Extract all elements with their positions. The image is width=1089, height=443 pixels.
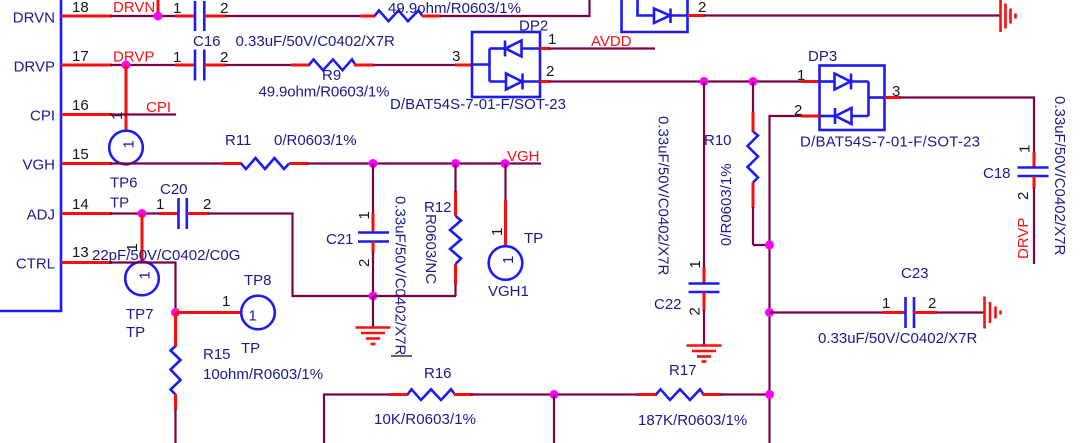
wire DRVP row left (110, 64, 176, 66)
capacitor C16 pin1 stub (175, 64, 195, 67)
capacitor C20 plates (177, 198, 180, 229)
svg-text:CTRL: CTRL (16, 256, 55, 273)
svg-text:1: 1 (489, 228, 506, 236)
svg-text:C23: C23 (901, 265, 929, 282)
diode DP3 inner vertical (867, 82, 870, 117)
svg-text:DRVP: DRVP (113, 49, 154, 66)
resistor R10 top stub (752, 112, 755, 132)
node junction ADJ (138, 209, 147, 218)
resistor R12 column bottom wire (454, 284, 456, 296)
wire TP7 drop (141, 214, 144, 262)
svg-text:1: 1 (249, 308, 257, 325)
wire ADJ row right with corner down (208, 214, 373, 297)
svg-text:1: 1 (121, 140, 138, 148)
resistor R10 bottom wire (752, 207, 754, 245)
diode DP3 top inner wire (820, 80, 835, 83)
testpoint VGH1 drop wire (504, 164, 506, 202)
svg-text:3: 3 (892, 83, 900, 100)
wire DRVN row mid (225, 15, 361, 17)
node junction C22 top (700, 77, 709, 86)
wire stub from top into node (157, 0, 160, 16)
resistor R16 left stub (389, 393, 409, 396)
svg-text:1: 1 (173, 0, 181, 17)
svg-text:2: 2 (203, 196, 211, 213)
wire junction down (553, 395, 555, 443)
diode DP2 bottom inner wire (490, 80, 507, 83)
wire DP1 to ground (704, 14, 1000, 16)
svg-text:VGH: VGH (22, 157, 55, 174)
wire VGH row right (307, 162, 541, 164)
diode DP3 pin1 stub (801, 80, 820, 83)
svg-text:10ohm/R0603/1%: 10ohm/R0603/1% (203, 366, 323, 383)
node junction R17 right (765, 390, 774, 399)
ground symbol C21 stem (372, 296, 374, 327)
DP2 pin 3 stub (455, 64, 472, 67)
diode DP2 top triangle (506, 41, 522, 57)
wire C23 row (770, 311, 884, 313)
diode DP2 pin2 stub (540, 80, 550, 83)
resistor R17 left stub (637, 393, 657, 396)
resistor R8 left stub (360, 15, 375, 18)
diode DP1 triangle (654, 9, 670, 24)
capacitor C18 pin2 stub (1033, 176, 1036, 189)
diode DP3 bottom wire left (820, 115, 836, 118)
capacitor C21 pin2 stub (372, 241, 375, 253)
wire node to R12 (373, 295, 456, 297)
svg-text:1: 1 (882, 295, 890, 312)
node junction R10 top (749, 77, 758, 86)
capacitor C16a pin2 stub (204, 15, 226, 18)
svg-text:DRVN: DRVN (13, 10, 55, 27)
node junction DRVP (122, 61, 131, 70)
svg-text:C16: C16 (193, 33, 221, 50)
svg-text:ADJ: ADJ (27, 207, 55, 224)
wire DP3 pin2 left and down (770, 116, 803, 443)
svg-text:TP: TP (241, 340, 260, 357)
svg-text:1: 1 (1017, 145, 1034, 153)
wire DP3 pin3 right and down (900, 98, 1034, 154)
capacitor C20 pin2 stub (187, 212, 209, 215)
svg-text:1: 1 (548, 31, 556, 48)
capacitor C22 plates (689, 282, 720, 285)
node junction TP8 (171, 308, 180, 317)
svg-text:2: 2 (687, 307, 704, 315)
svg-text:16: 16 (72, 97, 89, 114)
svg-text:15: 15 (72, 146, 89, 163)
svg-text:13: 13 (72, 244, 89, 261)
wire CTRL row (110, 263, 176, 314)
svg-text:VGH1: VGH1 (488, 283, 529, 300)
capacitor C16a plates (194, 1, 197, 31)
diode DP2 bottom triangle (506, 74, 522, 90)
wire R17 right (720, 393, 770, 395)
pin 13 stub (61, 261, 112, 264)
wire R15 bottom (174, 409, 176, 443)
diode DP3 pin3 stub (885, 96, 902, 99)
svg-text:TP: TP (110, 195, 129, 212)
resistor R10 bottom stub (752, 183, 755, 209)
svg-text:R16: R16 (424, 365, 452, 382)
svg-text:DRVP: DRVP (1015, 218, 1032, 259)
svg-text:2: 2 (220, 0, 228, 17)
capacitor C18 plates (1018, 166, 1049, 169)
resistor R16 right stub (454, 393, 473, 396)
svg-text:0.33uF/50V/C0402/X7R: 0.33uF/50V/C0402/X7R (236, 33, 395, 50)
svg-text:DRVN: DRVN (113, 0, 155, 16)
resistor R15 bottom stub (174, 394, 177, 410)
diode DP1 pin2 stub (688, 14, 706, 17)
capacitor C23 pin1 stub (882, 311, 905, 314)
diode DP3 top cathode bar (850, 74, 853, 90)
svg-text:R9: R9 (322, 67, 341, 84)
svg-text:1: 1 (173, 49, 181, 66)
capacitor C22 top wire (703, 82, 705, 269)
capacitor C22 bottom wire (703, 310, 705, 345)
resistor R12 bottom stub (454, 264, 457, 285)
svg-text:2: 2 (1015, 192, 1032, 200)
wire TP8 stub (176, 311, 242, 314)
testpoint VGH1 pin stub (504, 200, 507, 246)
resistor R9 zigzag (309, 59, 356, 70)
pin 18 stub (61, 15, 112, 18)
svg-text:TP6: TP6 (110, 175, 138, 192)
svg-text:22pF/50V/C0402/C0G: 22pF/50V/C0402/C0G (92, 247, 240, 264)
svg-text:1: 1 (687, 260, 704, 268)
diode DP2 bottom wire right (523, 80, 541, 83)
svg-text:1: 1 (222, 293, 230, 310)
svg-text:0/R0603/1%: 0/R0603/1% (274, 132, 357, 149)
svg-text:1: 1 (156, 196, 164, 213)
svg-text:2: 2 (356, 259, 373, 267)
svg-text:TP: TP (524, 230, 543, 247)
svg-text:14: 14 (72, 196, 89, 213)
diode DP2 top cathode bar (504, 41, 507, 57)
capacitor C21 bottom wire (372, 252, 374, 296)
resistor R11 left stub (222, 162, 242, 165)
resistor R15 top stub (174, 313, 177, 348)
resistor R10 zigzag (748, 132, 759, 183)
capacitor C18 bottom wire (1033, 188, 1035, 264)
capacitor C21 top wire (372, 164, 374, 215)
testpoint TP8 circle (241, 296, 275, 330)
svg-text:C18: C18 (983, 165, 1011, 182)
capacitor C21 plates (358, 231, 389, 234)
svg-text:2: 2 (546, 63, 554, 80)
svg-text:1: 1 (797, 67, 805, 84)
capacitor C16a pin1 stub (175, 15, 195, 18)
diode DP1 inner wire right (671, 14, 688, 17)
resistor R16 zigzag (408, 389, 456, 400)
svg-text:0.33uF/50V/C0402/X7R: 0.33uF/50V/C0402/X7R (818, 330, 977, 347)
wire DRVN row right with corner up (440, 0, 590, 16)
resistor R15 zigzag (171, 346, 181, 395)
svg-text:DP3: DP3 (808, 48, 837, 65)
ground symbol right C23 (983, 297, 986, 329)
capacitor C21 pin1 stub (372, 213, 375, 232)
diode DP2 bottom cathode bar (521, 74, 524, 90)
underline mark below rotated value (391, 355, 412, 357)
capacitor C16 plates (194, 50, 197, 81)
wire DRVP row right (373, 64, 456, 66)
svg-text:1: 1 (109, 112, 126, 120)
testpoint TP7 circle (125, 262, 159, 296)
node junction VGH-TP (501, 159, 510, 168)
svg-text:2: 2 (698, 0, 706, 16)
node junction C23 (765, 308, 774, 317)
wire TP6 drop (125, 65, 128, 132)
resistor R12 top stub (454, 191, 457, 216)
svg-text:0.33uF/50V/C0402/X7R: 0.33uF/50V/C0402/X7R (392, 196, 409, 355)
diode DP3 top triangle (835, 74, 851, 90)
diode DP2 box (472, 32, 540, 97)
testpoint VGH1 circle (489, 246, 523, 280)
resistor R9 right stub (354, 64, 374, 67)
svg-text:3: 3 (452, 48, 460, 65)
svg-text:49.9ohm/R0603/1%: 49.9ohm/R0603/1% (259, 84, 390, 101)
capacitor C20 pin1 stub (159, 212, 179, 215)
svg-text:R15: R15 (203, 346, 231, 363)
wire AVDD (549, 47, 655, 49)
diode DP3 top wire right (851, 80, 869, 83)
wire ADJ row left (110, 212, 160, 214)
svg-text:CPI: CPI (30, 108, 55, 125)
svg-text:D/BAT54S-7-01-F/SOT-23: D/BAT54S-7-01-F/SOT-23 (800, 134, 980, 151)
wire R16 left riser (324, 395, 390, 443)
svg-text:R10: R10 (704, 132, 732, 149)
diode DP2 inner left wire (472, 63, 490, 66)
resistor R17 zigzag (656, 389, 704, 400)
pin 15 stub (61, 162, 112, 165)
svg-text:0.33uF/50V/C0402/X7R: 0.33uF/50V/C0402/X7R (655, 116, 672, 275)
diode DP3 pin2 stub (801, 115, 820, 118)
svg-text:2: 2 (928, 295, 936, 312)
resistor R9 left stub (291, 64, 310, 67)
svg-text:49.9ohm/R0603/1%: 49.9ohm/R0603/1% (388, 0, 521, 17)
resistor R11 right stub (289, 162, 308, 165)
diode DP3 box (820, 66, 885, 131)
ground symbol C21 bars (356, 326, 391, 329)
wire R16 to R17 (471, 393, 638, 395)
pin 14 stub (61, 212, 112, 215)
diode DP3 bottom triangle (836, 108, 852, 124)
diode DP2 top inner wire (490, 47, 506, 50)
capacitor C18 pin1 stub (1033, 152, 1036, 167)
capacitor C22 pin1 stub (703, 267, 706, 283)
svg-text:1: 1 (356, 211, 373, 219)
node junction C21 ground (369, 292, 378, 301)
diode DP1 cathode bar (669, 9, 672, 24)
svg-text:187K/R0603/1%: 187K/R0603/1% (638, 412, 747, 429)
diode DP2 top wire right (522, 47, 541, 50)
capacitor C22 pin2 stub (703, 292, 706, 311)
wire VGH row left (110, 162, 223, 164)
svg-text:TP: TP (126, 324, 145, 341)
pin 17 stub (61, 64, 112, 67)
resistor R8 zigzag (375, 10, 423, 21)
node junction VGH-C21 (369, 159, 378, 168)
diode DP2 inner vertical (488, 49, 491, 82)
node junction R10 bottom (765, 241, 774, 250)
diode DP3 bottom cathode bar (834, 108, 837, 124)
resistor R10 top wire (752, 82, 754, 114)
svg-text:TP7: TP7 (126, 306, 154, 323)
diode DP1 box (622, 0, 688, 32)
svg-text:R11: R11 (225, 132, 251, 149)
resistor R8 right stub (422, 15, 441, 18)
diode DP2 pin1 stub (540, 47, 550, 50)
wire C23 to ground (936, 311, 984, 313)
svg-text:1: 1 (500, 256, 517, 264)
svg-text:18: 18 (72, 0, 89, 16)
svg-text:TP8: TP8 (244, 272, 272, 289)
wire CPI stub (110, 113, 176, 115)
svg-text:0/R0603/1%: 0/R0603/1% (718, 163, 735, 246)
svg-text:C21: C21 (326, 231, 354, 248)
capacitor C23 plates (904, 297, 907, 328)
resistor R17 right stub (703, 393, 722, 396)
svg-text:2: 2 (220, 49, 228, 66)
node junction R16-R17 (550, 390, 559, 399)
diode DP1 inner wire (638, 0, 655, 16)
svg-text:C22: C22 (654, 296, 682, 313)
svg-text:R0603/NC: R0603/NC (422, 214, 439, 284)
wire R10 to vertical jog (753, 244, 770, 246)
resistor R11 zigzag (241, 158, 289, 169)
ground symbol right top (999, 0, 1002, 32)
diode DP3 pin3 inner wire (869, 96, 885, 99)
capacitor C23 pin2 stub (914, 311, 937, 314)
capacitor C16 pin2 stub (204, 64, 226, 67)
svg-text:17: 17 (72, 48, 89, 65)
svg-text:D/BAT54S-7-01-F/SOT-23: D/BAT54S-7-01-F/SOT-23 (390, 96, 566, 113)
wire DRVP row mid (225, 64, 292, 66)
svg-text:DRVP: DRVP (14, 59, 55, 76)
svg-text:1: 1 (137, 271, 154, 279)
testpoint TP6 circle (109, 131, 143, 165)
pin 16 stub (61, 113, 112, 116)
svg-text:0.33uF/50V/C0402/X7R: 0.33uF/50V/C0402/X7R (1051, 96, 1068, 255)
svg-text:10K/R0603/1%: 10K/R0603/1% (374, 411, 476, 428)
IC U1 body edge (0, 0, 61, 311)
node junction DRVN (154, 12, 163, 21)
node junction VGH-R12 (451, 159, 460, 168)
ground symbol C22 bars (687, 344, 722, 347)
wire DP2 pin2 to DP3 (549, 80, 802, 82)
diode DP3 bottom wire right (852, 115, 869, 118)
svg-text:R17: R17 (669, 362, 697, 379)
resistor R12 top wire (454, 164, 456, 193)
wire DRVN row left (110, 15, 176, 17)
resistor R12 zigzag (450, 216, 461, 264)
